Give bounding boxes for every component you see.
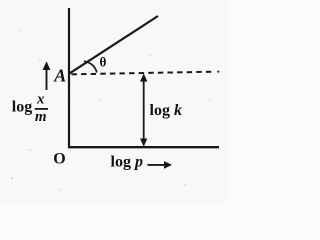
x-axis <box>68 146 219 148</box>
isotherm line <box>69 16 158 74</box>
dot after dashed line <box>217 71 219 73</box>
svg-text:m: m <box>35 109 47 125</box>
svg-text:O: O <box>53 151 65 168</box>
speckles <box>11 29 211 193</box>
paper noise texture <box>0 0 227 205</box>
log k arrow shaft <box>143 77 145 143</box>
dashed horizontal line <box>72 72 214 75</box>
svg-text:log p: log p <box>111 154 143 171</box>
svg-text:θ: θ <box>99 55 106 70</box>
log k arrow bottom head <box>140 139 147 147</box>
svg-text:A: A <box>53 66 66 86</box>
svg-text:log: log <box>12 99 32 116</box>
svg-text:x: x <box>36 92 45 108</box>
log k arrow top head <box>140 73 147 81</box>
y-axis label: fraction bar <box>35 108 48 110</box>
svg-text:log k: log k <box>150 102 182 119</box>
x-axis arrow shaft <box>148 164 168 166</box>
x-axis arrow head <box>164 161 172 169</box>
y-axis <box>68 8 70 148</box>
up arrow shaft <box>46 66 48 90</box>
up arrow head <box>43 61 51 70</box>
angle arc <box>84 61 97 72</box>
